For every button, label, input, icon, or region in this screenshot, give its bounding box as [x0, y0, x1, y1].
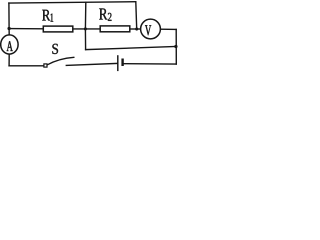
voltmeter V1 circle — [141, 19, 161, 39]
wire bottom right segment — [124, 63, 177, 65]
resistor R2 — [100, 26, 130, 32]
ammeter A1 circle — [1, 35, 18, 54]
node C junction dot left of voltmeter — [135, 28, 138, 31]
wire bottom left segment — [9, 65, 44, 67]
voltmeter V letter — [145, 25, 151, 35]
wire V to right corner — [160, 28, 176, 30]
wire lower middle horizontal — [86, 47, 176, 50]
battery cell long plate — [117, 55, 119, 71]
label R1 — [42, 10, 50, 21]
label S — [52, 44, 58, 54]
switch S terminal — [44, 64, 47, 67]
ammeter A letter — [7, 41, 13, 51]
node A junction dot left — [8, 27, 11, 30]
wire right side vertical — [175, 29, 177, 64]
switch S lever — [47, 57, 74, 65]
wire mid vertical through node B — [84, 3, 86, 50]
resistor R1 — [43, 26, 73, 32]
wire R2 to node C — [130, 28, 141, 30]
wire top line — [9, 2, 136, 3]
battery cell short thick plate — [121, 59, 123, 67]
wire R1 to node B — [73, 28, 100, 30]
wire bottom battery to switch — [66, 63, 117, 65]
node D junction dot on right vertical — [174, 45, 177, 48]
wire right top vertical — [135, 2, 138, 29]
wire left vertical below ammeter — [8, 54, 10, 66]
node B junction dot between R1 and R2 — [84, 28, 87, 31]
wire left vertical — [8, 3, 10, 35]
label R2 — [99, 9, 107, 20]
wire main row left segment — [9, 28, 43, 30]
